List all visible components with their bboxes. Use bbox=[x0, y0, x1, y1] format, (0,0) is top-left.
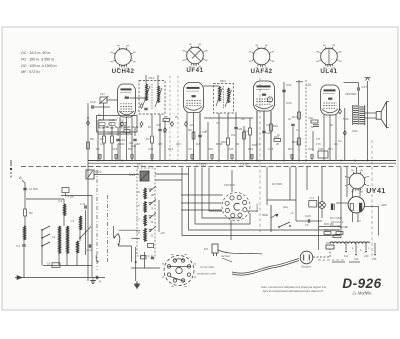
MF1 secondary arrow bbox=[155, 88, 162, 107]
resistor R18 (power) bbox=[333, 235, 341, 238]
IF transformer MF1 (dashed box) bbox=[139, 81, 165, 115]
junction dots on chassis bus bbox=[97, 160, 368, 162]
wire UF41 drops bbox=[199, 113, 201, 135]
vertical x165 with diamond bbox=[164, 120, 166, 161]
switch arrow L6 bbox=[150, 199, 156, 204]
svg-text:1M: 1M bbox=[196, 142, 201, 146]
svg-text:CV1: CV1 bbox=[95, 170, 101, 174]
component ticks on bus bbox=[99, 154, 313, 161]
svg-text:L5: L5 bbox=[137, 190, 141, 194]
svg-text:2M: 2M bbox=[241, 118, 244, 121]
voltage labels row 2 bbox=[352, 247, 370, 252]
trimmer C17 bbox=[100, 97, 107, 103]
svg-text:Vu du côté: Vu du côté bbox=[200, 265, 214, 269]
svg-text:130: 130 bbox=[354, 257, 359, 261]
resistor at x244 bbox=[243, 132, 246, 139]
MF1 primary coil bbox=[146, 84, 148, 101]
svg-text:C17: C17 bbox=[100, 92, 105, 96]
wire x135.7 down bbox=[135, 247, 137, 281]
svg-text:C34 16+16: C34 16+16 bbox=[331, 221, 344, 224]
oscillator coil L6 bbox=[144, 201, 146, 212]
svg-text:C32: C32 bbox=[286, 101, 292, 105]
svg-text:volume: volume bbox=[255, 203, 259, 212]
resistor R11 bbox=[249, 128, 252, 135]
pilot lamp E1 bbox=[319, 202, 326, 209]
wire vertical x244 bbox=[243, 126, 245, 161]
svg-text:+90V: +90V bbox=[381, 203, 388, 207]
wire plug to selector bbox=[313, 256, 330, 258]
wire PU to volume pot bbox=[218, 250, 262, 254]
capacitor C32 bbox=[291, 123, 294, 125]
junction diamond (feedthrough) b bbox=[140, 122, 143, 127]
coil L2 winding bbox=[59, 226, 61, 254]
power section labels bbox=[324, 222, 348, 232]
svg-text:C39 5000: C39 5000 bbox=[224, 184, 235, 187]
coil L4b winding bbox=[77, 241, 79, 253]
wire y226 power bbox=[319, 226, 341, 228]
capacitor C14 bbox=[151, 256, 154, 258]
wire L10 dashed bbox=[305, 80, 307, 161]
svg-text:R16: R16 bbox=[288, 147, 294, 151]
wire loop rect 3 bbox=[202, 168, 241, 219]
resistor R20 body bbox=[336, 232, 343, 235]
capacitor C20 bbox=[133, 138, 136, 140]
wire C22 bbox=[159, 114, 161, 129]
power resistor text rows bbox=[330, 217, 344, 232]
resistor R13 bbox=[274, 139, 281, 142]
svg-text:R14: R14 bbox=[292, 115, 298, 119]
terminal T (earth) bbox=[17, 276, 22, 280]
oscillator switch arc cluster bbox=[113, 226, 119, 245]
resistor R1 body bbox=[24, 209, 27, 216]
wire balayeur stub bbox=[222, 258, 232, 262]
svg-text:C29: C29 bbox=[305, 214, 311, 218]
svg-text:C33: C33 bbox=[268, 147, 274, 151]
wire C24 bbox=[235, 112, 237, 127]
coil block wires bbox=[26, 195, 92, 277]
svg-text:5000: 5000 bbox=[252, 144, 258, 147]
trimmer above coil block bbox=[62, 188, 69, 193]
capacitor C1 bbox=[23, 187, 26, 189]
svg-text:C2: C2 bbox=[188, 147, 192, 151]
capacitor C19 bbox=[116, 138, 119, 140]
wire y238 osc bbox=[131, 237, 140, 239]
svg-text:R4: R4 bbox=[124, 126, 128, 130]
detector pentode U3 UAF42 bbox=[254, 81, 275, 111]
dash-dot separator line bbox=[371, 140, 373, 258]
wire L10 T-bar terminal bbox=[296, 81, 303, 83]
resistor R5 bbox=[163, 119, 170, 122]
svg-text:C.2: C.2 bbox=[16, 244, 21, 248]
volume potentiometer P (with switch) bbox=[270, 205, 272, 232]
svg-text:25: 25 bbox=[276, 142, 280, 146]
oscillator coil L7 bbox=[144, 215, 146, 226]
wire UAF42 lead 2 bbox=[263, 111, 265, 161]
MF1 primary arrow bbox=[143, 86, 150, 105]
MF1 core bbox=[151, 84, 153, 110]
wire C27 column bbox=[358, 91, 360, 105]
svg-text:UCH42: UCH42 bbox=[112, 68, 135, 75]
wire R10 down bbox=[227, 145, 229, 161]
wire UY41 cathode out bbox=[365, 206, 380, 208]
svg-text:C.4 180: C.4 180 bbox=[65, 196, 74, 199]
svg-text:PO : 185 m. à 580 m.: PO : 185 m. à 580 m. bbox=[21, 58, 55, 62]
tube socket UCH42 (top view) bbox=[110, 46, 135, 75]
capacitor B+ bbox=[95, 276, 97, 279]
svg-text:170: 170 bbox=[316, 138, 321, 141]
mains dropper resistance (winding) bbox=[330, 242, 370, 243]
loudspeaker LS (cone) bbox=[376, 102, 389, 128]
dash mark 2 bbox=[349, 261, 360, 263]
resistor R8 bbox=[192, 132, 195, 139]
svg-text:C25: C25 bbox=[266, 131, 271, 135]
junction diamond (feedthrough) c bbox=[171, 122, 174, 127]
wire AVC left vertical bbox=[87, 103, 89, 281]
svg-text:250: 250 bbox=[104, 126, 109, 129]
band table text bbox=[21, 51, 58, 74]
svg-text:L2: L2 bbox=[52, 235, 56, 239]
svg-text:C16: C16 bbox=[90, 100, 96, 104]
wire R11 bbox=[249, 118, 251, 128]
wire loop rect 4 bbox=[209, 168, 222, 212]
wire vertical x313 bbox=[312, 131, 314, 151]
capacitor C25 bbox=[262, 130, 265, 132]
svg-text:C22: C22 bbox=[156, 123, 161, 127]
wire UY41 bulb bottom leads bbox=[352, 213, 354, 223]
svg-text:L7: L7 bbox=[137, 217, 141, 221]
chassis bus (second) bbox=[88, 162, 396, 164]
labels below bus bbox=[137, 163, 249, 166]
chassis bus (upper) bbox=[88, 160, 396, 162]
capacitor C16 bbox=[91, 105, 93, 108]
IF transformer MF2 (dashed box) bbox=[214, 84, 234, 114]
svg-text:C28 5000: C28 5000 bbox=[345, 92, 357, 96]
capacitor C23 bbox=[198, 134, 201, 136]
small rects in box bbox=[99, 123, 126, 126]
resistor R4 bbox=[124, 130, 130, 133]
svg-text:C30: C30 bbox=[318, 147, 323, 151]
wire R7 down bbox=[151, 143, 153, 161]
svg-text:R17: R17 bbox=[328, 147, 334, 151]
component box right of pot bbox=[309, 201, 317, 208]
svg-text:R7: R7 bbox=[146, 137, 150, 141]
dash mark 1 bbox=[332, 261, 345, 263]
svg-text:0,1: 0,1 bbox=[205, 130, 209, 133]
switch arrow L5 bbox=[150, 186, 156, 191]
capacitor C31 bbox=[282, 89, 285, 91]
svg-text:C.8: C.8 bbox=[58, 199, 63, 203]
wire UF41 lead 2 bbox=[193, 113, 195, 161]
svg-text:R13: R13 bbox=[248, 147, 254, 151]
wire AF column bbox=[298, 80, 300, 161]
junction diamond (feedthrough) d bbox=[185, 122, 188, 127]
svg-text:UY41: UY41 bbox=[366, 188, 386, 195]
svg-text:PU: PU bbox=[204, 247, 208, 251]
svg-text:C1 250: C1 250 bbox=[29, 187, 38, 191]
terminal post (left margin) bbox=[10, 160, 12, 166]
wire stub L8 bbox=[149, 228, 153, 230]
wire UL41 lead 2 bbox=[329, 115, 331, 161]
wire oscillator to ground bbox=[144, 252, 146, 268]
wire C39 column bbox=[231, 170, 233, 192]
wire h interconnect UF41-UAF42 bbox=[204, 117, 253, 119]
output pentode U4 UL41 bbox=[321, 85, 340, 115]
resistor R6 body bbox=[87, 142, 90, 149]
padder capacitor C15 bbox=[148, 244, 154, 248]
svg-text:0,47: 0,47 bbox=[334, 229, 339, 232]
wire MF1 stubs up bbox=[145, 75, 147, 84]
svg-text:8000: 8000 bbox=[216, 142, 223, 146]
wire UCH42 lead 1 bbox=[119, 117, 121, 161]
svg-text:220: 220 bbox=[364, 254, 369, 258]
svg-text:UAF42: UAF42 bbox=[250, 68, 272, 75]
dashed line bottom power bbox=[318, 259, 344, 261]
svg-text:R8: R8 bbox=[188, 128, 192, 132]
svg-text:R.3: R.3 bbox=[120, 119, 124, 122]
junction dot AVC bbox=[87, 117, 89, 119]
svg-text:R6: R6 bbox=[90, 137, 94, 141]
capacitor C27 bbox=[357, 87, 359, 90]
ground (small, antenna bus) bbox=[92, 278, 94, 281]
oscillator coil L5 bbox=[144, 188, 146, 199]
svg-text:OC : 16,5 m. 50 m.: OC : 16,5 m. 50 m. bbox=[21, 51, 51, 55]
wire drops UCH42 network bbox=[104, 127, 135, 161]
wire to C29 bbox=[296, 220, 308, 222]
triode-hexode U1 UCH42 bbox=[118, 84, 136, 117]
svg-text:0,5: 0,5 bbox=[158, 142, 162, 146]
svg-text:R17 2x600: R17 2x600 bbox=[330, 217, 343, 220]
svg-text:UF41: UF41 bbox=[186, 67, 203, 74]
wire L1 bottom bbox=[23, 239, 25, 244]
svg-text:C34: C34 bbox=[308, 147, 314, 151]
wire osc feedback bbox=[158, 200, 160, 232]
svg-text:R.2 5000: R.2 5000 bbox=[272, 183, 283, 186]
wire UY41 socket to bulb stubs bbox=[352, 189, 354, 198]
capacitor C12 bbox=[88, 244, 90, 247]
svg-text:0,4: 0,4 bbox=[357, 220, 361, 223]
svg-text:MF : 472 Kc: MF : 472 Kc bbox=[21, 70, 41, 74]
svg-text:C23: C23 bbox=[148, 147, 154, 151]
wire vertical x208 bbox=[207, 122, 209, 161]
coil L3 winding bbox=[67, 226, 69, 254]
junction diamond (feedthrough) a bbox=[121, 122, 124, 127]
connector socket P1 (rear view, dashed) bbox=[222, 193, 250, 221]
dash-dot separator line bbox=[259, 78, 261, 232]
resistor R14 bbox=[298, 112, 301, 119]
wire grid UF41 h bbox=[151, 114, 153, 135]
wire UAF42 lead 3 bbox=[270, 111, 272, 161]
wires into connector P1 bbox=[181, 194, 223, 196]
junction dot bbox=[135, 261, 137, 263]
svg-text:R9: R9 bbox=[128, 147, 132, 151]
svg-text:R2: R2 bbox=[100, 137, 104, 141]
svg-text:L4: L4 bbox=[71, 219, 75, 223]
mains cable (wavy) bbox=[232, 259, 299, 274]
vertical wire x344.8 with diamond bbox=[344, 108, 346, 161]
svg-text:50: 50 bbox=[236, 142, 240, 146]
wire det diagonal bbox=[256, 111, 258, 161]
svg-text:MF2: MF2 bbox=[220, 79, 226, 83]
component box under UCH42 bbox=[97, 116, 138, 133]
output transformer T1 bbox=[353, 105, 365, 125]
section dashed line bbox=[169, 76, 171, 160]
choke L9 body bbox=[52, 263, 60, 268]
svg-text:0,5: 0,5 bbox=[296, 142, 300, 146]
svg-text:UL41: UL41 bbox=[320, 68, 337, 75]
tube socket UF41 (top view) bbox=[182, 44, 207, 74]
MF2 secondary arrow bbox=[225, 90, 232, 107]
svg-text:1200: 1200 bbox=[352, 130, 358, 133]
tuning gang link (dash-dot) bbox=[96, 170, 98, 270]
wire UL41 lead 1 bbox=[323, 115, 325, 161]
svg-text:43 C: 43 C bbox=[137, 163, 142, 166]
switch on pot (interrupteur) bbox=[279, 222, 290, 227]
MF1 secondary coil bbox=[158, 86, 160, 103]
wire UL41 top to C27 bbox=[344, 82, 359, 84]
wire vertical x293 lower bbox=[292, 127, 294, 161]
ground (main) bbox=[136, 281, 138, 284]
svg-text:C.13: C.13 bbox=[80, 203, 86, 206]
trimmer CV1 bbox=[86, 170, 94, 179]
tube socket UY41 (top view) bbox=[345, 170, 386, 195]
svg-text:C25: C25 bbox=[228, 147, 234, 151]
wire C17 to grid bbox=[107, 99, 118, 101]
electrolytic cap C33 (power) bbox=[332, 204, 334, 211]
svg-text:1M: 1M bbox=[190, 124, 193, 127]
wire UF41 top to MF2 bbox=[204, 85, 220, 87]
MF2 primary arrow bbox=[216, 88, 223, 106]
capacitor C35 (power) bbox=[326, 245, 334, 249]
tuning gang curve end bbox=[96, 255, 99, 262]
resistor R15 bbox=[298, 138, 301, 145]
svg-text:2M: 2M bbox=[136, 142, 141, 146]
svg-text:D-926: D-926 bbox=[342, 276, 381, 291]
svg-text:-2C: -2C bbox=[160, 231, 166, 235]
capacitor C30 (box) bbox=[318, 151, 328, 158]
MF2 secondary coil bbox=[228, 88, 230, 103]
svg-text:C.3: C.3 bbox=[310, 197, 315, 200]
svg-text:L9: L9 bbox=[47, 262, 51, 266]
svg-text:C31: C31 bbox=[286, 83, 292, 87]
wire stub L7 bbox=[149, 215, 153, 217]
svg-text:170: 170 bbox=[316, 142, 321, 146]
oscillator coil assembly (dashed outline) bbox=[137, 168, 155, 256]
capacitor C2 under L1 bbox=[22, 244, 25, 246]
svg-text:R12: R12 bbox=[273, 124, 278, 128]
svg-text:5000: 5000 bbox=[343, 118, 349, 121]
wire transformer to speaker bbox=[365, 112, 376, 114]
svg-text:R10: R10 bbox=[208, 147, 214, 151]
vertical wire x367 (HT to output) bbox=[367, 81, 369, 161]
chassis bus (lower, dashed) bbox=[21, 166, 396, 168]
wire C29 to lamp node bbox=[310, 220, 322, 222]
section dashed line bbox=[177, 76, 179, 160]
wire loop rect 1b bbox=[182, 168, 262, 236]
svg-text:R.4: R.4 bbox=[99, 119, 103, 122]
mains plug (circle with prongs) bbox=[300, 251, 313, 264]
wire stub L5 bbox=[149, 188, 153, 190]
tube socket UAF42 (top view) bbox=[249, 45, 274, 75]
svg-text:2e Modèle: 2e Modèle bbox=[352, 291, 373, 296]
wire UCH42 network h1 bbox=[98, 119, 117, 121]
wire UCH42 lead 2 bbox=[126, 117, 128, 161]
padder trimmer CV2 bbox=[140, 171, 149, 181]
bottom left bus wire bbox=[15, 277, 105, 279]
IF pentode U2 UF41 bbox=[184, 83, 204, 113]
svg-text:0,1: 0,1 bbox=[100, 142, 104, 146]
svg-text:MF1: MF1 bbox=[149, 76, 155, 80]
svg-text:0,1: 0,1 bbox=[296, 129, 300, 132]
wire UAF42 lead 1 bbox=[256, 111, 258, 161]
resistor R19 body bbox=[324, 232, 331, 235]
svg-text:CV2: CV2 bbox=[129, 173, 135, 177]
coil L4 winding bbox=[80, 216, 82, 230]
power block left boundary bbox=[318, 196, 320, 250]
svg-text:R8: R8 bbox=[96, 147, 100, 151]
diode ring on UAF42 bbox=[267, 97, 272, 102]
wire UF41 lead 3 bbox=[199, 113, 201, 161]
diamond feedthrough UL41 anode bbox=[339, 109, 342, 114]
wire R12 drop bbox=[270, 111, 272, 124]
resistor R3 bbox=[111, 136, 114, 143]
wire C16 to UCH42 grid bbox=[94, 106, 110, 108]
svg-text:L6: L6 bbox=[137, 203, 141, 207]
vertical drops right-middle bbox=[267, 167, 347, 234]
diamond on AVC line bbox=[87, 121, 90, 126]
svg-text:R18 1200: R18 1200 bbox=[330, 225, 341, 228]
wire loop rect 2 bbox=[195, 168, 250, 225]
band switch contacts (front-end) bbox=[41, 226, 50, 266]
svg-text:soudures culot: soudures culot bbox=[197, 272, 216, 276]
second gang dash line bbox=[107, 195, 109, 262]
wire MF2 drop2 bbox=[227, 113, 229, 138]
svg-text:0,5: 0,5 bbox=[266, 124, 270, 127]
svg-text:0,2: 0,2 bbox=[338, 140, 342, 143]
svg-text:bal.haut: bal.haut bbox=[221, 255, 230, 258]
wire UF41 lead 1 bbox=[186, 113, 188, 161]
resistor R12 bbox=[270, 124, 273, 131]
tube socket UL41 (top view) bbox=[316, 45, 341, 75]
svg-text:L10: L10 bbox=[306, 83, 312, 87]
tube socket (underside view) with pins bbox=[162, 255, 196, 287]
terminal arrow top right bbox=[366, 78, 368, 81]
svg-text:5000: 5000 bbox=[118, 142, 125, 146]
svg-text:L8: L8 bbox=[137, 230, 141, 234]
wire UCH42 lead 3 bbox=[131, 117, 133, 161]
svg-text:110: 110 bbox=[344, 254, 349, 258]
svg-text:R12: R12 bbox=[168, 147, 174, 151]
svg-text:R1: R1 bbox=[29, 211, 33, 215]
svg-text:180: 180 bbox=[151, 194, 156, 197]
wire UAF42 cathode drop bbox=[263, 111, 265, 131]
diamond on MF1 line bbox=[140, 104, 143, 109]
antenna lead-in wire bbox=[22, 180, 25, 209]
wire heater to UY41 socket bbox=[356, 167, 358, 173]
wire loop rect 1 bbox=[189, 168, 259, 231]
R16 C26 cluster bbox=[308, 116, 319, 126]
ground (oscillator) bbox=[136, 282, 138, 285]
capacitor C24 bbox=[234, 126, 237, 128]
svg-text:C26: C26 bbox=[308, 116, 313, 120]
voltage selector taps bbox=[344, 243, 377, 261]
tiny value labels (texture) bbox=[98, 95, 361, 229]
svg-text:0,5: 0,5 bbox=[305, 224, 309, 227]
svg-text:220: 220 bbox=[129, 142, 134, 145]
svg-text:C27: C27 bbox=[362, 85, 368, 89]
capacitor C29 bbox=[307, 219, 309, 222]
wire y246 corner bbox=[118, 246, 132, 262]
svg-text:ligne et correspondent alterna: ligne et correspondent alternativement a… bbox=[263, 289, 323, 293]
